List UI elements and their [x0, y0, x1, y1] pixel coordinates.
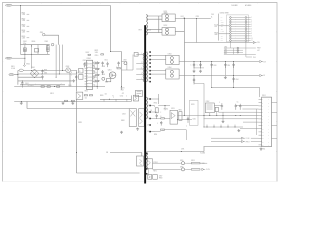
- svg-text:R858: R858: [159, 178, 163, 180]
- junction drive row: [109, 99, 110, 100]
- ground primary GND3: [71, 102, 74, 105]
- wire feedback to opto: [110, 153, 142, 157]
- svg-text:R855: R855: [191, 160, 195, 162]
- wire AC mesh: [18, 71, 77, 85]
- svg-text:12V: 12V: [221, 29, 223, 31]
- diode D856: [181, 168, 184, 171]
- opto PC851: [137, 156, 144, 166]
- wire primary ground bus: [14, 95, 131, 101]
- svg-text:C809: C809: [102, 74, 105, 76]
- capacitor C807: [83, 62, 85, 67]
- snubber C813: [129, 109, 136, 127]
- wire low fb: [155, 130, 186, 140]
- diode D806: [133, 95, 138, 101]
- wire pins to D853: [151, 56, 166, 74]
- svg-text:IC851: IC851: [262, 149, 266, 151]
- svg-text:R: R: [99, 75, 100, 77]
- wire varistor to filter: [45, 35, 59, 45]
- svg-text:C807: C807: [83, 60, 87, 62]
- capacitor C864: [232, 77, 234, 83]
- svg-text:R822: R822: [105, 81, 108, 83]
- snubber part pin1: [134, 53, 138, 57]
- diode D852: [162, 28, 175, 36]
- svg-text:P-ON: P-ON: [206, 169, 209, 171]
- svg-text:C810: C810: [95, 55, 99, 57]
- junction B+ node: [54, 86, 55, 87]
- svg-text:R805: R805: [22, 36, 26, 38]
- svg-text:P801: P801: [7, 5, 11, 7]
- terminal E801: [51, 43, 54, 46]
- svg-text:H.P: H.P: [257, 50, 259, 52]
- resistor R814: [96, 68, 99, 69]
- wire filter drops: [21, 45, 48, 55]
- svg-text:104: 104: [85, 97, 87, 99]
- wire cap branch: [185, 19, 253, 43]
- transistor Q851: [147, 159, 153, 169]
- svg-text:R826: R826: [85, 90, 88, 92]
- svg-text:IC852: IC852: [206, 101, 210, 103]
- wire Q802 column: [70, 70, 77, 91]
- svg-text:Q802: Q802: [66, 66, 70, 68]
- junction a: [184, 18, 185, 19]
- ground GND4: [72, 79, 75, 82]
- junction line node: [20, 5, 21, 6]
- wire arrows into IC: [251, 138, 259, 141]
- svg-text:IC851: IC851: [262, 95, 266, 97]
- svg-text:24V: 24V: [257, 42, 260, 44]
- svg-text:D855: D855: [180, 160, 184, 162]
- svg-text:P-ON: P-ON: [221, 31, 224, 33]
- svg-text:C864: C864: [235, 79, 238, 81]
- svg-text:R: R: [162, 130, 163, 132]
- ground under D808: [136, 128, 139, 131]
- diode D805: [102, 77, 105, 80]
- wire low links: [151, 112, 170, 119]
- svg-text:C871: C871: [181, 149, 185, 151]
- svg-text:R825: R825: [78, 122, 82, 124]
- wire reg links: [210, 103, 223, 120]
- svg-text:P-ON: P-ON: [246, 138, 249, 140]
- svg-text:PROT: PROT: [246, 141, 250, 143]
- resistor R857: [153, 175, 158, 180]
- IC851 pins left: [259, 99, 262, 144]
- svg-text:D857: D857: [159, 176, 163, 178]
- wire IC bottom rail: [204, 146, 262, 148]
- svg-text:R871: R871: [153, 170, 157, 172]
- svg-text:GND: GND: [221, 22, 224, 24]
- ground GND5: [120, 131, 123, 134]
- svg-text:R823: R823: [121, 87, 125, 89]
- resistor R855: [191, 163, 200, 164]
- resistor R854: [161, 129, 165, 130]
- ground GND11: [260, 147, 263, 150]
- wire connector bottom drop: [246, 54, 252, 57]
- svg-text:P802: P802: [7, 58, 11, 60]
- svg-text:C858: C858: [213, 65, 216, 67]
- drive row stubs: [104, 99, 127, 101]
- capacitor C852: [156, 114, 158, 119]
- svg-text:C812: C812: [120, 95, 124, 97]
- svg-text:F801: F801: [11, 66, 15, 68]
- connector arrow 5V: [260, 74, 263, 76]
- ground GND10: [237, 129, 240, 132]
- svg-text:R824: R824: [100, 95, 104, 97]
- resistor R809 inline: [41, 86, 44, 87]
- svg-text:ZD: ZD: [150, 110, 152, 112]
- IC801 internal dividers: [87, 64, 93, 87]
- diode D853: [166, 55, 179, 64]
- resistor R852: [179, 112, 182, 121]
- svg-text:IC853: IC853: [171, 108, 175, 110]
- wire D852 output: [175, 30, 184, 32]
- capacitor C861b: [233, 62, 235, 88]
- diode D854: [166, 69, 179, 79]
- wire discharge resistor rail: [20, 6, 22, 45]
- svg-text:C803: C803: [44, 41, 48, 43]
- varistor ZNR801: [42, 33, 45, 36]
- wire filter to mesh verticals: [56, 45, 62, 78]
- svg-text:R853: R853: [191, 104, 194, 106]
- svg-text:C: C: [84, 65, 85, 67]
- connector arrow row2: [202, 168, 205, 170]
- svg-text:C813: C813: [122, 113, 126, 115]
- connector E802 chassis: [23, 63, 25, 67]
- secondary winding mid of T801: [146, 52, 147, 82]
- resistor R818: [96, 74, 99, 75]
- svg-text:R815: R815: [50, 93, 54, 95]
- wire Q802 out: [71, 69, 77, 71]
- wire mid bus: [203, 115, 259, 117]
- net arrow P-ON: [211, 137, 242, 139]
- wire aux top rail: [146, 147, 204, 152]
- svg-text:Q801: Q801: [108, 69, 112, 71]
- diode D808: [139, 109, 145, 127]
- connector CN851 outline: [227, 15, 249, 42]
- svg-text:R: R: [71, 72, 72, 74]
- resistor R811: [79, 68, 83, 73]
- resistor R856: [191, 169, 200, 170]
- svg-text:R806: R806: [32, 41, 36, 43]
- wire opto row1: [153, 162, 208, 164]
- ground GND6: [193, 70, 196, 73]
- svg-text:D801: D801: [31, 67, 35, 69]
- resistor R859: [161, 118, 165, 119]
- svg-text:R: R: [99, 69, 100, 71]
- primary winding of T801: [143, 53, 144, 82]
- wire drive row: [100, 98, 131, 100]
- capacitor C857: [200, 62, 202, 70]
- svg-text:C: C: [190, 65, 191, 67]
- svg-text:C816: C816: [93, 86, 96, 88]
- svg-text:L851: L851: [181, 16, 184, 18]
- svg-text:E802: E802: [26, 63, 30, 65]
- wire clamp links: [122, 55, 134, 71]
- svg-text:B+ 300V: B+ 300V: [28, 85, 34, 87]
- resistor R822: [107, 78, 111, 81]
- svg-text:C: C: [113, 97, 114, 99]
- svg-text:D852: D852: [164, 25, 168, 27]
- parts bottom ac row: [57, 86, 60, 87]
- diode D851: [162, 14, 175, 22]
- junction fb: [183, 114, 186, 117]
- snubber parts top: [101, 54, 104, 55]
- wire secondary common: [158, 16, 160, 33]
- ground primary GND2: [62, 102, 65, 105]
- svg-text:R860: R860: [224, 51, 227, 53]
- connector P802 AC: [5, 57, 12, 59]
- wire pins to D851: [146, 16, 162, 33]
- diode D855: [181, 162, 184, 165]
- resistor R817 on bus: [71, 100, 74, 101]
- svg-text:C861: C861: [224, 49, 227, 51]
- junction fb nodes: [184, 18, 185, 19]
- ground GND7: [199, 70, 202, 73]
- diode D857: [148, 175, 152, 180]
- resistor R810 inline: [47, 86, 50, 87]
- capacitor C809: [101, 70, 103, 75]
- svg-text:5VS: 5VS: [202, 163, 205, 165]
- wire rail2 to bridge: [31, 54, 33, 68]
- secondary winding top of T801: [146, 14, 147, 35]
- wire lower return bus: [27, 102, 129, 109]
- svg-text:R818: R818: [44, 69, 47, 71]
- wire B+ rail: [14, 86, 105, 88]
- wire Q803 source down: [77, 99, 140, 173]
- regulator IC852: [205, 103, 214, 113]
- svg-text:473: 473: [122, 93, 124, 95]
- wire aux pin down: [148, 168, 150, 175]
- svg-text:C853: C853: [196, 16, 200, 18]
- capacitor C811: [106, 62, 108, 67]
- wire 5V bus: [179, 75, 259, 77]
- junction mesh nodes: [16, 73, 19, 76]
- capacitor CX802: [47, 45, 50, 51]
- junction filter: [30, 44, 33, 47]
- capacitor C851: [187, 117, 189, 123]
- svg-text:R854: R854: [154, 134, 157, 136]
- pin circles under connector: [237, 47, 239, 49]
- svg-text:24V: 24V: [221, 38, 223, 40]
- transistor Q802: [66, 68, 71, 73]
- svg-text:R821: R821: [95, 50, 99, 52]
- wire aux return drop: [203, 83, 205, 127]
- wire rail2 to E802: [24, 54, 26, 63]
- svg-text:R: R: [160, 116, 161, 118]
- svg-text:C851: C851: [193, 118, 197, 120]
- secondary winding low of T801: [146, 97, 147, 119]
- svg-text:C808: C808: [102, 66, 105, 68]
- secondary pins mid: [149, 51, 151, 53]
- svg-text:D856: D856: [180, 166, 184, 168]
- svg-text:C: C: [219, 102, 220, 104]
- svg-text:C: C: [71, 75, 72, 77]
- inductor L801: [34, 49, 38, 52]
- svg-text:FB: FB: [106, 152, 108, 154]
- svg-text:D807: D807: [86, 52, 90, 54]
- parts drive row: [84, 95, 87, 96]
- connector P803 AC neutral: [9, 74, 14, 76]
- svg-text:C811: C811: [104, 60, 107, 62]
- relay component by core: [135, 91, 142, 97]
- svg-text:NC: NC: [221, 40, 223, 42]
- svg-text:R: R: [154, 106, 155, 108]
- svg-text:10k: 10k: [105, 94, 107, 96]
- diode D860: [215, 107, 218, 111]
- capacitor CX801: [24, 49, 26, 50]
- svg-text:HOT: HOT: [139, 30, 142, 32]
- net arrow PROT: [211, 141, 242, 143]
- primary pin stubs: [136, 55, 144, 80]
- capacitor C814: [117, 62, 119, 67]
- svg-text:470p: 470p: [23, 43, 26, 45]
- aux pins bottom: [146, 153, 148, 155]
- svg-text:12V: 12V: [221, 26, 223, 28]
- wire startup drop: [111, 6, 122, 91]
- svg-text:PROT: PROT: [214, 32, 218, 34]
- junction PWM nodes: [75, 71, 78, 74]
- svg-text:C860: C860: [224, 47, 227, 49]
- wire P803 to fuse: [14, 74, 18, 76]
- aux winding bottom of T801: [146, 152, 147, 170]
- wire filter bottom rail: [21, 53, 50, 55]
- capacitor C855: [193, 62, 195, 70]
- capacitor C806: [75, 75, 77, 81]
- wire vertical collect: [255, 109, 257, 135]
- junction ground bus: [21, 101, 22, 102]
- svg-text:SB360: SB360: [164, 13, 168, 15]
- wire resistor column: [96, 61, 98, 89]
- svg-text:5V: 5V: [221, 19, 223, 21]
- diode D809: [124, 62, 127, 65]
- resistor R813: [96, 62, 99, 63]
- resistor R827: [117, 68, 120, 69]
- bridge rectifier D801 diamond: [30, 69, 39, 78]
- wire filter top rail: [21, 44, 50, 46]
- svg-text:R803: R803: [22, 24, 26, 26]
- ground GND8: [224, 76, 227, 79]
- resistor R816 on bus: [64, 100, 67, 101]
- op-amp IC851 protection IC: [262, 97, 272, 147]
- capacitor C856: [193, 76, 195, 85]
- capacitor C801: [21, 81, 23, 88]
- svg-text:R: R: [99, 63, 100, 65]
- ground GND9: [222, 120, 225, 123]
- junction b: [196, 18, 197, 19]
- svg-text:R802: R802: [22, 18, 26, 20]
- svg-text:RT: RT: [93, 85, 95, 87]
- transformer T801 core isolation bar: [144, 25, 146, 183]
- svg-text:C805: C805: [68, 85, 72, 87]
- wire opto row2: [153, 168, 192, 170]
- svg-text:C: C: [61, 84, 62, 86]
- svg-text:5V: 5V: [263, 75, 265, 77]
- resistor R819: [96, 80, 99, 81]
- svg-text:3V3: 3V3: [253, 57, 256, 59]
- IC801 pins: [85, 63, 95, 87]
- svg-text:5V: 5V: [221, 17, 223, 19]
- svg-text:R851: R851: [154, 103, 158, 105]
- svg-text:R835: R835: [93, 82, 96, 84]
- wire aux returns: [194, 68, 204, 84]
- wire feedback rail vertical: [184, 19, 186, 116]
- connector P801 AC line: [5, 4, 12, 6]
- svg-text:PC851: PC851: [153, 162, 157, 164]
- capacitor C862: [221, 104, 223, 110]
- svg-text:CC: CC: [237, 102, 239, 104]
- wire AC line: [12, 5, 110, 7]
- svg-text:D808: D808: [121, 120, 125, 122]
- junction rail2: [23, 53, 26, 56]
- svg-text:C: C: [186, 125, 187, 127]
- svg-text:D809: D809: [123, 60, 126, 62]
- svg-text:C: C: [157, 123, 158, 125]
- connector arrow aux24: [253, 41, 256, 43]
- capacitor C865: [235, 104, 237, 110]
- svg-text:P803: P803: [10, 74, 14, 76]
- svg-text:C: C: [160, 112, 161, 114]
- svg-text:R852: R852: [179, 110, 182, 112]
- capacitor C804: [41, 75, 43, 79]
- svg-text:C: C: [126, 95, 127, 97]
- svg-text:R804: R804: [22, 30, 26, 32]
- svg-text:C: C: [197, 64, 198, 66]
- svg-text:5VS: 5VS: [214, 26, 217, 28]
- wire 12V bus: [179, 61, 259, 63]
- svg-text:R801: R801: [22, 12, 26, 14]
- wire rows under connector: [224, 42, 256, 55]
- svg-text:R: R: [99, 81, 100, 83]
- wire feedback links: [158, 106, 203, 120]
- module box: [190, 100, 199, 125]
- svg-text:D854: D854: [168, 67, 172, 69]
- capacitor C866: [239, 104, 241, 110]
- svg-text:P-ON: P-ON: [214, 24, 217, 26]
- svg-text:C805: C805: [44, 73, 47, 75]
- svg-text:12V: 12V: [263, 61, 266, 63]
- wire ground bus3: [212, 88, 260, 98]
- svg-text:PC851: PC851: [164, 108, 168, 110]
- shunt regulator IC853 TL431: [170, 110, 178, 124]
- svg-text:24V: 24V: [211, 14, 214, 16]
- svg-text:GND: GND: [214, 34, 217, 36]
- svg-text:D853: D853: [168, 54, 172, 56]
- capacitor C808: [101, 62, 103, 67]
- svg-text:R861: R861: [224, 53, 227, 55]
- svg-text:C859: C859: [227, 65, 230, 67]
- resistor R807: [23, 48, 26, 52]
- svg-text:24V: 24V: [221, 35, 223, 37]
- ground primary GND1: [20, 102, 23, 105]
- connector CN851 pins: [230, 17, 232, 19]
- connector arrow 12V: [260, 60, 263, 62]
- IC851 pins right: [272, 103, 278, 139]
- zener ZD851: [155, 108, 158, 113]
- junction bus nodes: [193, 60, 196, 63]
- transistor Q803: [76, 92, 83, 99]
- wire D851 output: [175, 18, 211, 20]
- op-amp IC801 PWM controller: [87, 60, 93, 89]
- wire P802 join: [12, 57, 25, 59]
- svg-text:0.22: 0.22: [121, 89, 124, 91]
- svg-text:REM: REM: [221, 33, 224, 35]
- svg-text:IC801: IC801: [87, 58, 91, 60]
- capacitor C859: [224, 62, 226, 76]
- junction aux: [181, 151, 182, 152]
- wire comb bus: [204, 125, 243, 127]
- capacitor C803b: [41, 70, 43, 74]
- secondary pins low: [149, 98, 151, 100]
- wires to IC851: [204, 106, 259, 129]
